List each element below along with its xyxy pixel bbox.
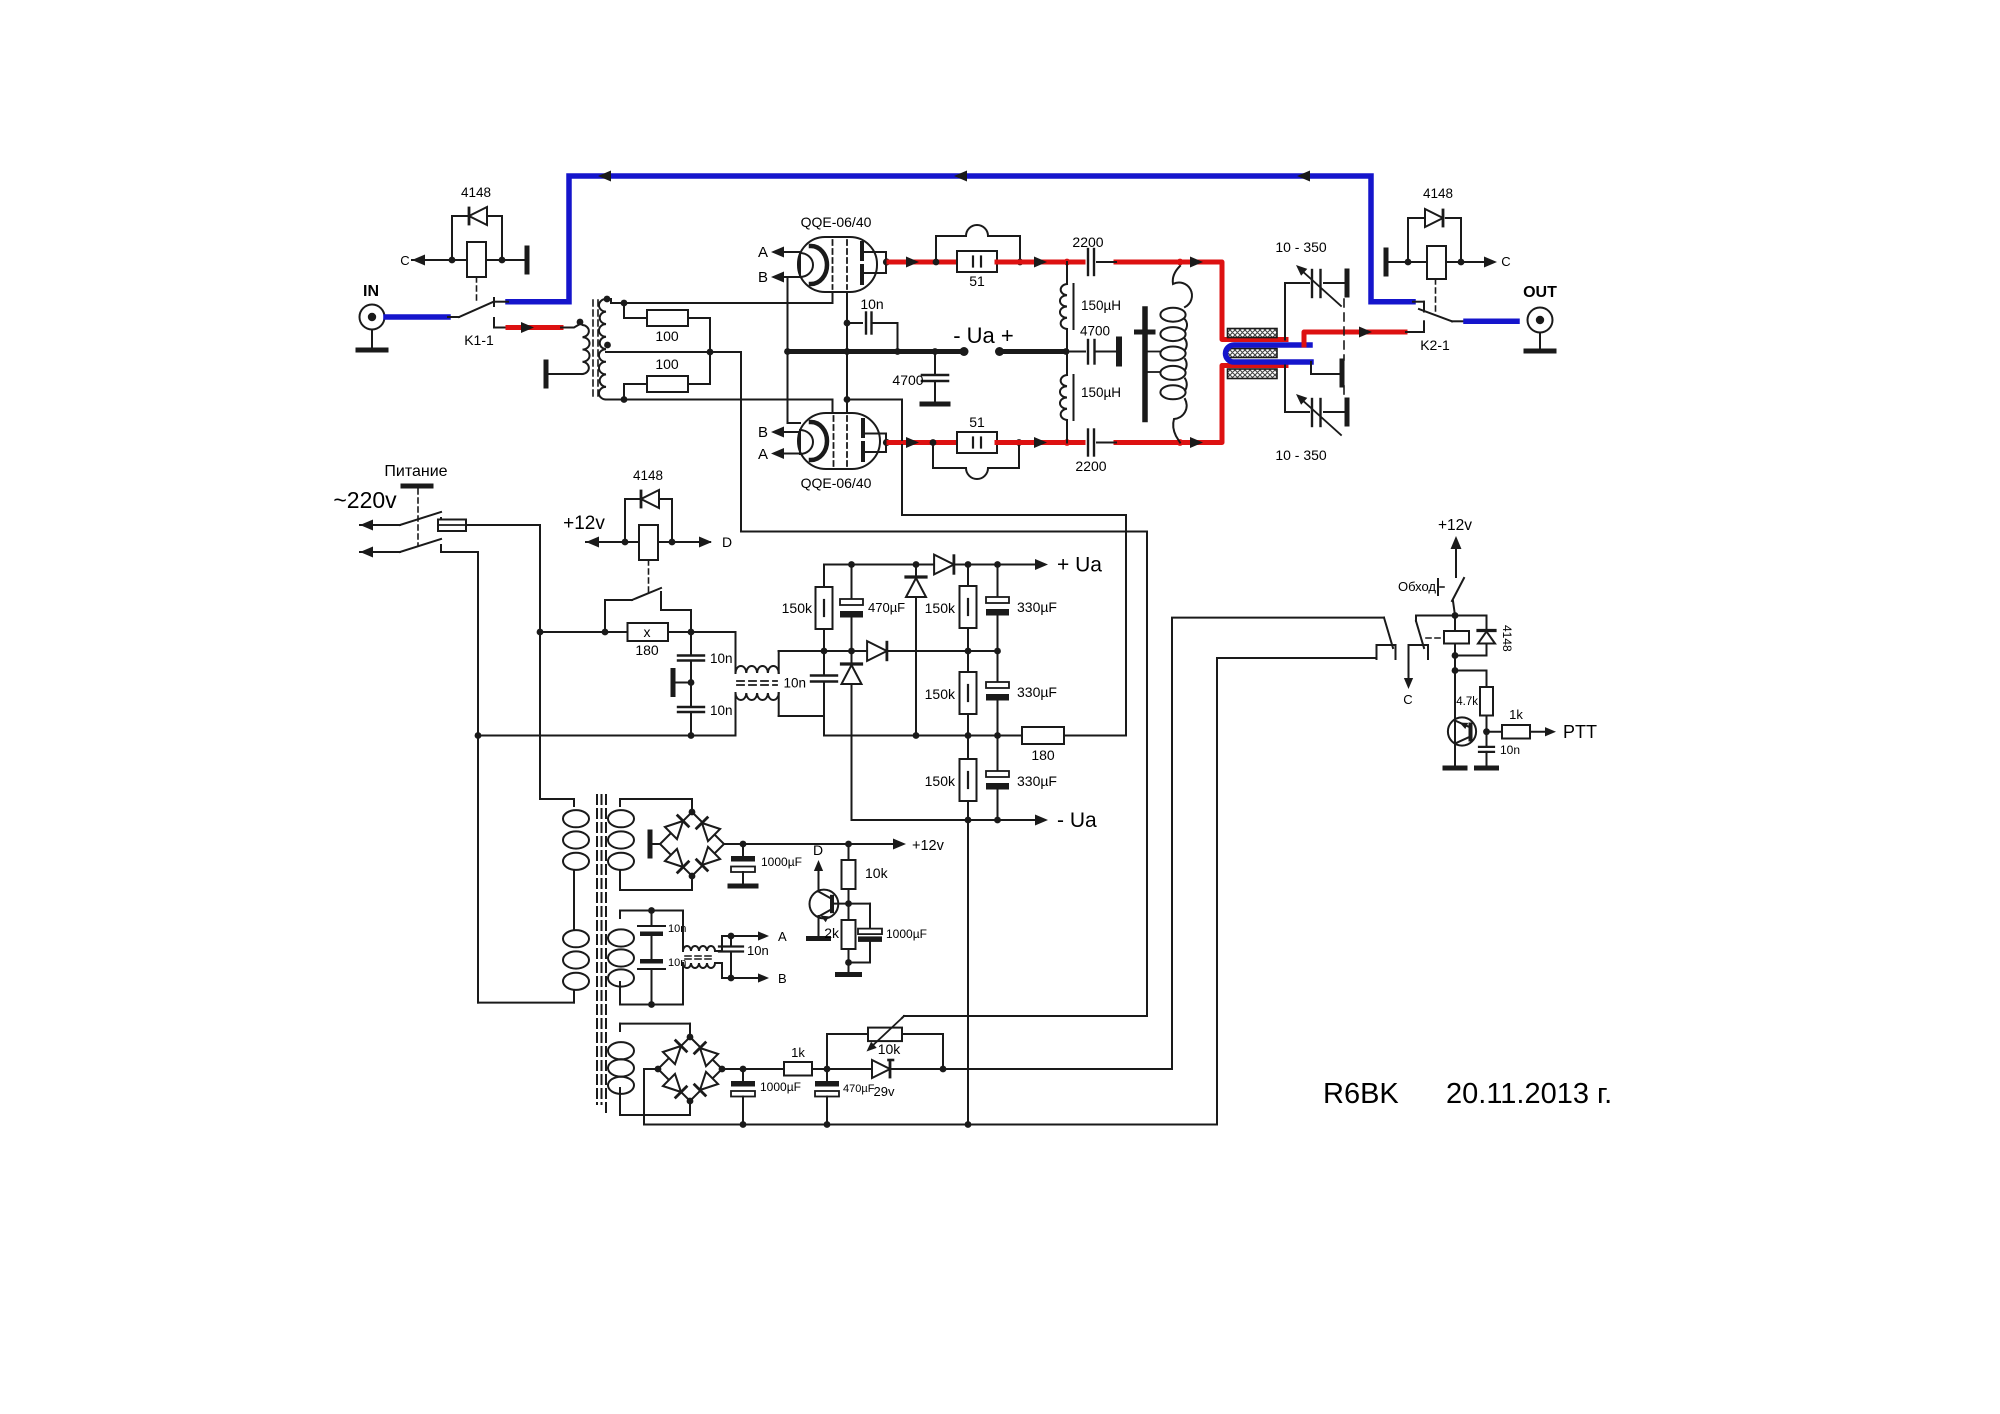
arrow on blue wire: [954, 171, 967, 182]
tube V1 anode leads: [864, 251, 886, 253]
node on D wire: [622, 539, 629, 546]
svg-text:A: A: [758, 446, 768, 463]
svg-text:10n: 10n: [710, 703, 733, 718]
relay K3 coil: [1444, 631, 1469, 644]
node center tap: [707, 349, 714, 356]
wire fuse to T2: [471, 524, 540, 526]
tube V1 envelope: [798, 237, 877, 292]
variable capacitor 10-350 (top): [1311, 270, 1313, 297]
svg-text:B: B: [778, 971, 787, 986]
ground bus bottom: [644, 1124, 1217, 1126]
wire 29v rail to bypass relay: [943, 618, 1384, 1069]
tube V1 internal grids dashed: [832, 240, 834, 289]
wire grid bias to pot wiper: [741, 352, 1147, 1016]
choke CM mains bottom: [735, 693, 737, 736]
wire red to tank (bottom): [1116, 366, 1286, 443]
arrow on blue wire: [598, 171, 611, 182]
svg-text:1k: 1k: [1509, 707, 1523, 722]
core bar bottom: [1228, 369, 1278, 379]
wire D coil row: [586, 537, 599, 548]
node Y3 C5: [994, 732, 1001, 739]
node on K2 wire: [1458, 259, 1465, 266]
node grid return at bus: [784, 348, 791, 355]
wire 1k to node: [812, 1068, 874, 1070]
wire relay top to contact2: [1416, 615, 1455, 617]
wire red after 51 (top): [997, 260, 1083, 265]
svg-text:x: x: [644, 624, 651, 640]
wire K1 diode loop: [451, 216, 453, 260]
resistor 150k (C4 bottom): [967, 736, 969, 760]
inductor 150uH (top): [1066, 262, 1068, 284]
wire blue IN to K1-1: [386, 314, 448, 320]
svg-text:QQE-06/40: QQE-06/40: [801, 475, 872, 491]
svg-text:A: A: [758, 244, 768, 261]
wire red after 51 (bottom): [997, 440, 1083, 445]
contact cluster 1 blade: [1384, 618, 1393, 648]
dashed link D coil to contact: [648, 560, 650, 596]
wire X to filter node: [668, 631, 691, 633]
node choke bus: [1063, 348, 1070, 355]
node Y1 C2: [848, 561, 855, 568]
arrow on red: [1034, 437, 1047, 448]
switch K1-1 upper contact: [493, 298, 495, 306]
svg-text:10n: 10n: [860, 296, 883, 312]
wire coupling loop ground link: [1311, 362, 1339, 374]
zener 29v: [872, 1060, 890, 1078]
node mains row left: [537, 629, 544, 636]
potentiometer 10k: [868, 1028, 902, 1042]
wire +12v rail: [724, 843, 898, 845]
tank coil L1: [1173, 266, 1192, 307]
arrow +12v up: [1451, 536, 1462, 549]
ground at 10n PTT: [1477, 766, 1497, 771]
ground at variable cap bottom: [1345, 400, 1350, 424]
svg-text:4148: 4148: [1500, 625, 1514, 652]
svg-text:10 - 350: 10 - 350: [1275, 447, 1327, 463]
svg-text:B: B: [758, 424, 768, 441]
variable capacitor 10-350 (bottom): [1311, 399, 1313, 426]
wire to variable cap top: [1284, 283, 1286, 340]
switch K1-1 lower contact: [493, 318, 495, 328]
wire sec2 top: [620, 910, 683, 912]
wire red to tank (top): [1116, 262, 1286, 340]
resistor 100 (top): [623, 303, 625, 318]
svg-text:10n: 10n: [783, 676, 806, 691]
wire IN to switch: [448, 316, 459, 318]
pot wiper lead: [902, 1016, 904, 1018]
svg-text:- Ua: - Ua: [1057, 809, 1097, 832]
arrow on red: [906, 437, 919, 448]
wire zener to node: [890, 1068, 943, 1070]
choke CM heater bottom: [682, 963, 684, 1005]
node 51 left (bottom): [930, 439, 937, 446]
node 51 right (top): [1017, 259, 1024, 266]
bypass switch blade: [632, 588, 661, 600]
wire -Ua row: [852, 819, 1041, 821]
contact cluster 2 bracket: [1409, 645, 1429, 659]
svg-text:Питание: Питание: [384, 463, 447, 480]
tube V1 cathode arc: [800, 253, 813, 277]
choke CM heater core: [685, 955, 713, 957]
node bus 470uF: [824, 1121, 831, 1128]
lead B of V1: [783, 276, 799, 278]
node 51 left (top): [933, 259, 940, 266]
bypass contact right: [660, 592, 662, 610]
svg-text:4.7k: 4.7k: [1456, 696, 1478, 708]
node cathode 10n tap: [844, 320, 851, 327]
node grid line A: [621, 300, 628, 307]
resistor 1k (PTT): [1487, 731, 1503, 733]
svg-text:2k: 2k: [824, 925, 840, 941]
pot left lead: [827, 1033, 868, 1035]
wire cathode column: [846, 292, 848, 413]
node PTT: [1483, 728, 1490, 735]
svg-text:A: A: [778, 929, 787, 944]
wire mid row: [779, 650, 868, 652]
contact cluster 1 bracket: [1377, 645, 1396, 659]
wire filter top: [691, 631, 736, 633]
svg-text:150µH: 150µH: [1081, 298, 1121, 313]
node bypass left: [602, 629, 609, 636]
wire V2 screen stub: [832, 400, 834, 414]
bus -Ua left segment: [788, 349, 965, 354]
lead B of V2: [783, 431, 799, 433]
ground under OUT: [1539, 334, 1541, 350]
transformer T1 secondary: [599, 299, 606, 400]
wire 180 to cathode riser: [1064, 735, 1126, 737]
resistor 51 (bottom): [957, 432, 997, 453]
relay K1 coil: [467, 242, 486, 277]
svg-text:4148: 4148: [633, 468, 663, 483]
switch K2-1 blade: [1419, 309, 1452, 321]
bypass contact left riser: [604, 600, 606, 632]
svg-text:470µF: 470µF: [843, 1083, 875, 1095]
ground at 2k: [848, 963, 850, 973]
wire out of K2-1: [1452, 320, 1466, 322]
node cathode bus: [844, 348, 851, 355]
wire mid-rail row Y3: [824, 735, 1022, 737]
node Y3 C3: [913, 732, 920, 739]
svg-text:QQE-06/40: QQE-06/40: [801, 214, 872, 230]
svg-text:PTT: PTT: [1563, 722, 1597, 742]
relay K2 coil: [1427, 246, 1446, 279]
node relay bottom: [1452, 652, 1459, 659]
wire red V2 anode: [889, 440, 957, 445]
variable cap arrow (bottom): [1300, 398, 1341, 435]
resistor 100 (bottom): [623, 384, 625, 400]
wire heater B out: [731, 977, 761, 979]
wire sec3 bottom: [620, 1114, 690, 1116]
svg-text:330µF: 330µF: [1017, 599, 1057, 615]
core of T1: [592, 300, 594, 399]
bus -Ua right segment: [1000, 349, 1067, 354]
wire V1 screen stub: [832, 292, 834, 303]
dashed mains switch link: [417, 489, 419, 546]
arrow C (K2): [1484, 257, 1497, 268]
svg-text:OUT: OUT: [1523, 284, 1557, 301]
svg-text:+ Ua: + Ua: [1057, 554, 1102, 577]
svg-text:R6BK: R6BK: [1323, 1078, 1399, 1110]
node BR2 left: [655, 1066, 662, 1073]
svg-text:20.11.2013 г.: 20.11.2013 г.: [1446, 1078, 1612, 1110]
wire T1 primary to ground: [547, 373, 583, 375]
diode 4148 across K2 coil: [1408, 217, 1424, 219]
arrow on red wire: [521, 322, 534, 333]
transformer T2 secondary 1: [619, 799, 621, 806]
diode 4148 across K3: [1455, 615, 1487, 617]
tube V2 internal grids dashed: [833, 416, 835, 466]
transformer T2 primary lower: [573, 921, 575, 930]
ground at BR1: [652, 843, 660, 845]
node cathode at grid line B: [844, 396, 851, 403]
arrow on red: [906, 257, 919, 268]
resistor 10k (D): [848, 844, 850, 860]
svg-text:180: 180: [635, 642, 659, 658]
node bus -Ua drop: [965, 1121, 972, 1128]
capacitor 2200 (bottom): [1087, 430, 1089, 456]
capacitor 1000uF (D filter): [849, 903, 871, 905]
capacitor 10n (filter bottom): [690, 683, 692, 708]
mains switch pole 1: [360, 520, 373, 531]
node grid line B: [621, 396, 628, 403]
wire sec2 bottom: [620, 1004, 683, 1006]
switch K2-1 lower contact: [1423, 321, 1425, 332]
svg-text:180: 180: [1031, 747, 1055, 763]
ground at 1000uF-1: [730, 884, 756, 889]
node bus 1000uF: [740, 1121, 747, 1128]
wire T1 center tap: [606, 351, 741, 353]
wire relay vertical: [1454, 616, 1456, 632]
ground under IN: [371, 331, 373, 349]
mains switch pole 2: [360, 547, 373, 558]
svg-text:D: D: [813, 842, 823, 858]
arrow C (K1): [412, 255, 425, 266]
capacitor 470uF (C2): [851, 565, 853, 600]
svg-text:10n: 10n: [1500, 743, 1520, 757]
capacitor 10n (PTT): [1486, 732, 1488, 747]
choke CM mains core: [737, 680, 777, 682]
node Y1 C4: [965, 561, 972, 568]
tube V1 anode plates: [860, 243, 864, 259]
diode HV mid: [867, 641, 887, 661]
capacitor 470uF (bias): [826, 1069, 828, 1081]
node Y2 C5: [994, 648, 1001, 655]
wire blue to OUT: [1466, 319, 1517, 325]
node BR1 bottom: [689, 873, 696, 880]
parasitic choke loop (top): [936, 225, 1020, 262]
pot right lead: [902, 1033, 943, 1035]
mains plug bar: [403, 484, 431, 489]
svg-text:150k: 150k: [925, 773, 956, 789]
svg-text:4700: 4700: [1080, 324, 1110, 339]
capacitor 10n (heater top): [651, 911, 653, 927]
capacitor 4700 (bus to ground): [1066, 351, 1085, 353]
ground at T1 primary: [544, 362, 549, 386]
svg-text:C: C: [400, 253, 409, 268]
node BR1 top: [689, 809, 696, 816]
transformer T2 secondary 2: [619, 911, 621, 919]
wire D diode loop: [624, 499, 626, 542]
node Y2 C2: [848, 648, 855, 655]
node 10k top: [845, 841, 852, 848]
svg-text:150µH: 150µH: [1081, 385, 1121, 400]
svg-text:2200: 2200: [1075, 458, 1106, 474]
node 10n at bus: [894, 348, 901, 355]
capacitor 2200 (top): [1087, 249, 1089, 275]
svg-text:1000µF: 1000µF: [760, 1080, 801, 1094]
svg-text:K2-1: K2-1: [1420, 337, 1450, 353]
transistor Q1 (D driver): [810, 890, 839, 919]
wire K2 coil row: [1386, 261, 1427, 263]
svg-text:150k: 150k: [925, 686, 956, 702]
svg-text:4700: 4700: [892, 372, 923, 388]
node 470uF: [824, 1066, 831, 1073]
svg-text:+12v: +12v: [563, 513, 605, 534]
node AC neutral at filter: [688, 732, 695, 739]
node red choke2 tap: [1064, 439, 1071, 446]
node BR2 right: [719, 1066, 726, 1073]
wire cathode to PSU: [847, 399, 902, 401]
zener Z1 (C3): [915, 565, 917, 578]
svg-text:+12v: +12v: [912, 838, 945, 854]
ground at 4700: [922, 402, 948, 407]
wire grid line B (bottom): [606, 399, 833, 401]
ground at K1 coil: [525, 248, 530, 272]
wire 29v rail start: [722, 1068, 784, 1070]
wire +Ua row: [824, 564, 935, 566]
capacitor 330uF (C5 bottom): [997, 736, 999, 772]
capacitor 1000uF (LV): [742, 844, 744, 856]
wire red link to K2-1: [1304, 332, 1405, 345]
pin node V1 anode: [883, 258, 890, 265]
node D base: [845, 900, 852, 907]
svg-text:29v: 29v: [874, 1084, 895, 1099]
node T1 secondary top: [604, 296, 611, 303]
arrow on red: [1190, 437, 1203, 448]
wire -Ua to ground bus: [967, 820, 969, 1125]
capacitor 10n (neutralizing): [847, 322, 862, 324]
svg-text:10 - 350: 10 - 350: [1275, 239, 1327, 255]
wire to variable cap bottom: [1284, 366, 1286, 413]
node Y4 C5: [994, 817, 1001, 824]
arrow on red to K2: [1359, 327, 1372, 338]
Obhod bracket: [1437, 579, 1439, 595]
wire blue into K2-1: [1413, 301, 1424, 303]
svg-text:D: D: [722, 534, 732, 550]
bridge rectifier BR1: [660, 812, 724, 876]
wire K1 coil row: [412, 259, 467, 261]
tube V2 cathode arc: [800, 430, 813, 454]
svg-text:K1-1: K1-1: [464, 332, 494, 348]
svg-text:10n: 10n: [747, 943, 769, 958]
svg-text:100: 100: [655, 356, 679, 372]
wire heater A out: [731, 935, 761, 937]
resistor 4.7k: [1455, 670, 1487, 672]
node on D wire: [669, 539, 676, 546]
bus terminal: [995, 347, 1004, 356]
wire C sense: [1408, 659, 1410, 681]
core bar mid: [1228, 349, 1278, 358]
node AC neutral at T2 drop: [475, 732, 482, 739]
dashed link K1 coil to contact: [476, 277, 478, 300]
node filter mid: [688, 679, 695, 686]
relay D coil: [639, 525, 658, 560]
svg-text:150k: 150k: [925, 600, 956, 616]
svg-text:100: 100: [655, 328, 679, 344]
node on K1 wire: [499, 257, 506, 264]
core of T2: [596, 795, 598, 1104]
resistor 150k (C4 top): [967, 565, 969, 587]
svg-text:10k: 10k: [865, 865, 889, 881]
transformer T1 primary: [583, 325, 590, 374]
diode 4148 across K1 coil: [452, 215, 467, 217]
svg-text:C: C: [1501, 254, 1510, 269]
svg-text:51: 51: [969, 414, 985, 430]
wire +12v down: [1455, 546, 1457, 577]
node BR2 top: [687, 1034, 694, 1041]
resistor X 180 (inrush): [628, 623, 669, 641]
node 1000uF-3: [740, 1066, 747, 1073]
node relay top: [1452, 612, 1459, 619]
node Y2 C4: [965, 648, 972, 655]
node sec2 top: [648, 907, 655, 914]
wire sec3 top: [620, 1023, 690, 1025]
tube V1 grid arc: [811, 246, 827, 284]
ground at Q2: [1445, 766, 1465, 771]
switch K1-1 blade: [459, 302, 493, 317]
svg-text:IN: IN: [363, 283, 379, 300]
svg-text:51: 51: [969, 273, 985, 289]
resistor 1k (bias): [784, 1062, 812, 1076]
svg-text:1000µF: 1000µF: [761, 855, 802, 869]
capacitor 10n (after choke): [823, 651, 825, 676]
connector OUT: [1528, 308, 1553, 333]
node Y4 C4: [965, 817, 972, 824]
arrow on red: [1034, 257, 1047, 268]
svg-text:+12v: +12v: [1438, 517, 1472, 534]
diode 4148 across D coil: [625, 498, 640, 500]
capacitor 1000uF (bias): [742, 1069, 744, 1081]
capacitor 10n (heater bottom): [640, 959, 663, 964]
svg-text:1000µF: 1000µF: [886, 927, 927, 941]
svg-text:B: B: [758, 269, 768, 286]
svg-text:- Ua +: - Ua +: [953, 323, 1014, 348]
svg-text:150k: 150k: [782, 600, 813, 616]
svg-text:330µF: 330µF: [1017, 773, 1057, 789]
svg-text:~220v: ~220v: [333, 487, 397, 513]
wire grid line A (top): [617, 302, 833, 304]
wire ground bus to contact: [1217, 658, 1377, 1125]
arrow on blue wire: [1297, 171, 1310, 182]
ground at K2 coil: [1384, 250, 1389, 274]
inductor 150uH (bottom): [1066, 352, 1068, 376]
variable cap arrow (top): [1300, 269, 1341, 306]
capacitor 10n (filter top): [690, 632, 692, 655]
node Y1 C3: [913, 561, 920, 568]
node red choke1 tap: [1064, 259, 1071, 266]
wire cathode to 180 node: [901, 400, 903, 441]
wire red K1-1 to T1: [508, 325, 561, 330]
transformer T2 secondary 3: [619, 1024, 621, 1031]
node pot right: [940, 1066, 947, 1073]
node Y3 C4: [965, 732, 972, 739]
bridge rectifier BR2: [658, 1037, 722, 1101]
node T1 primary top: [577, 319, 584, 326]
node 4700 at bus: [932, 348, 939, 355]
transistor Q2 (PTT): [1448, 717, 1476, 745]
node sec2 bottom: [648, 1001, 655, 1008]
wire K2 diode loop: [1407, 218, 1409, 262]
